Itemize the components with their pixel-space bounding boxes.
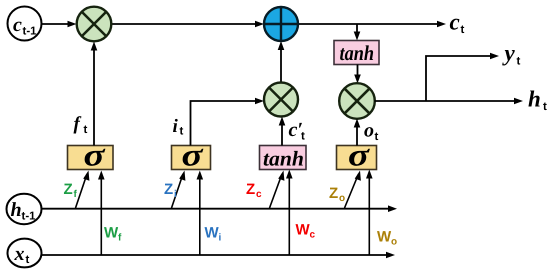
label W_i [205,225,222,244]
svg-text:tanh: tanh [340,41,375,65]
multiply op M1 [77,7,112,42]
sigma box S3 (output gate) [337,137,377,173]
svg-text:c: c [256,189,262,200]
wire S2 up and right to M2 (i_t) [191,98,265,146]
wire Z_f from h bus to S1 [76,171,90,209]
wire W_c from x bus to T2 [286,170,293,256]
label i_t [173,116,184,138]
tanh box T2 (candidate) [260,146,307,171]
svg-text:W: W [104,225,119,242]
multiply op M3 [339,83,375,119]
node h_{t-1} [7,194,42,224]
svg-text:c: c [13,14,22,36]
node c_{t-1} [8,7,42,41]
tanh box T1 [334,41,379,66]
wire c_{t-1} to multiply M1 [41,21,77,28]
wire M1 to add A1 [112,21,264,28]
wire T1 to multiply M3 [354,65,361,84]
wire h_{t-1} bus [42,205,398,212]
svg-text:Z: Z [64,181,73,198]
node x_t [8,239,42,268]
node label c_t [450,10,465,37]
svg-text:σ: σ [182,137,204,173]
wire T2 up to M2 (c'_t) [279,117,286,146]
svg-text:c: c [310,230,316,241]
svg-text:o: o [391,237,397,248]
svg-text:x: x [14,243,25,265]
label o_t [364,120,379,144]
svg-text:W: W [377,229,392,246]
label W_c [296,222,316,241]
wire A1 to c_t output [298,21,446,28]
add op A1 [264,7,298,41]
svg-text:h: h [11,199,22,221]
svg-text:c: c [450,10,460,35]
svg-text:t-1: t-1 [22,211,37,223]
svg-text:t-1: t-1 [23,26,38,38]
svg-text:i: i [173,116,179,137]
svg-text:t: t [517,56,521,68]
wire W_i from x bus to S2 [197,171,204,256]
svg-text:Z: Z [246,181,255,198]
wire branch up to y_t output [426,53,499,101]
label c'_t [289,119,306,143]
wire Z_i from h bus to S2 [172,171,186,209]
svg-text:tanh: tanh [263,147,304,171]
label Z_c [246,181,262,200]
wire M3 to h_t output [375,98,524,105]
svg-text:W: W [205,225,220,242]
wire S3 up to M3 (o_t) [354,119,361,146]
svg-text:i: i [219,233,222,244]
svg-text:h: h [528,87,541,112]
svg-text:t: t [26,254,30,266]
label Z_f [64,181,78,200]
svg-text:o: o [339,193,345,204]
wire M2 up to A1 [278,41,285,82]
node label h_t [528,87,547,114]
svg-text:t: t [180,126,184,138]
label W_o [377,229,397,248]
svg-text:y: y [502,41,516,66]
wire W_f from x bus to S1 [98,171,105,256]
svg-text:Z: Z [164,181,173,198]
svg-text:t: t [375,131,379,143]
svg-text:o: o [364,120,374,142]
svg-text:t: t [301,131,305,143]
node label y_t [502,41,521,68]
svg-text:Z: Z [329,185,338,202]
label Z_i [164,181,177,200]
wire x_t bus [42,252,396,259]
svg-text:σ: σ [348,137,370,173]
wire W_o from x bus to S3 [366,170,373,256]
wire branch down into tanh T1 [354,24,361,41]
wire S1 up to M1 (f_t) [91,42,98,146]
sigma box S1 (forget gate) [68,137,114,173]
svg-text:W: W [296,222,311,239]
wire Z_c from h bus to T2 [270,171,285,209]
sigma box S2 (input gate) [172,137,211,173]
svg-text:t: t [84,124,88,136]
svg-text:i: i [174,189,177,200]
svg-text:t: t [543,101,547,113]
label W_f [104,225,122,244]
wire Z_o from h bus to S3 [345,171,361,209]
multiply op M2 [264,83,298,117]
svg-text:t: t [461,24,465,36]
label Z_o [329,185,345,204]
label f_t [74,114,88,137]
